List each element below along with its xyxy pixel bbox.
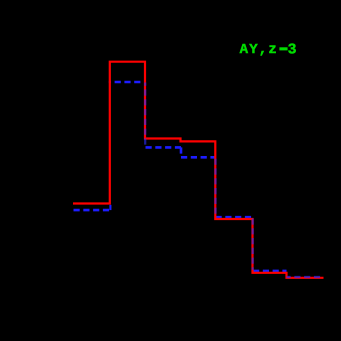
blue-over-red mixed riser at x=145 (purple dashes) (144, 83, 146, 148)
green label equals-sign bar of "z=3" (279, 47, 287, 50)
blue dashed histogram: riser at x=181 (180, 147, 183, 157)
red solid histogram step curve (73, 62, 324, 278)
svg-text:3: 3 (288, 42, 297, 58)
blue-over-red mixed dashes on faint-end level 6 (287, 276, 324, 278)
blue dashed histogram: level 3 (146, 146, 182, 149)
blue-over-red mixed riser at x=215.5 (purple dashes) (214, 159, 216, 216)
blue-over-red mixed riser at x=252.8 (purple dashes) (252, 218, 254, 269)
svg-text:AY,z: AY,z (240, 42, 278, 58)
blue dashed histogram: top level of tall bar (109, 81, 142, 84)
blue dashed histogram: level 5 (253, 270, 287, 273)
blue dashed histogram: level 3b (181, 156, 216, 159)
blue dashed histogram: short riser under red vertical (109, 205, 111, 210)
blue dashed histogram: level 4 (216, 216, 254, 219)
blue dashed histogram: bottom-left level (74, 209, 111, 212)
